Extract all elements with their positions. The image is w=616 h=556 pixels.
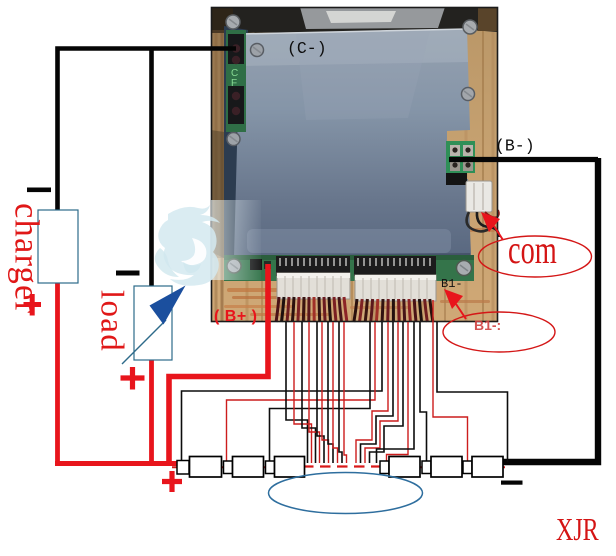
cell 6 — [472, 457, 503, 478]
balance wire L8 stub — [339, 322, 342, 463]
balance wire R2 stub — [361, 322, 394, 463]
charger minus — [27, 188, 51, 193]
wire positive bus bottom — [55, 461, 184, 466]
load minus — [116, 271, 140, 276]
balance wire to T7 — [437, 322, 508, 462]
left margin shading — [211, 30, 227, 258]
balance wire R6 stub — [377, 322, 415, 463]
load plus — [121, 367, 145, 390]
screws — [226, 15, 477, 276]
balance wire R4 stub — [370, 322, 404, 463]
tab T1 — [224, 461, 233, 474]
cell 3 — [275, 457, 305, 478]
balance wire to T4 — [387, 322, 409, 461]
balance wire L7 stub — [333, 322, 338, 463]
svg-text:B1-:: B1-: — [474, 317, 501, 333]
wood streaks bottom — [224, 228, 495, 316]
cell 2 — [233, 457, 264, 478]
com ellipse — [479, 236, 592, 277]
B1- ellipse — [443, 312, 555, 352]
wire charger-negative to C- — [58, 49, 237, 211]
cell 1 — [190, 457, 222, 478]
balance wire L5 stub — [322, 322, 329, 463]
omitted cells blue ellipse — [269, 473, 423, 514]
red dashed omitted cells — [303, 465, 380, 467]
svg-text:com: com — [508, 227, 557, 272]
plate top glare — [300, 7, 445, 29]
pcb dark left strip — [224, 26, 248, 262]
balance wire R3 stub — [365, 322, 398, 463]
cell 5 — [431, 457, 462, 478]
bottom pin headers — [276, 256, 350, 276]
B- connector — [446, 141, 475, 173]
junction links red — [172, 466, 505, 468]
tab T0 — [177, 461, 189, 475]
svg-text:(C-): (C-) — [287, 39, 327, 58]
bottom plus — [162, 471, 182, 492]
svg-text:load: load — [94, 290, 130, 352]
white JST connectors — [277, 273, 350, 299]
load arrow line — [122, 320, 166, 364]
svg-text:charger: charger — [8, 203, 46, 314]
svg-text:F: F — [231, 78, 237, 89]
arrow to com wires — [481, 212, 503, 240]
balance wire to T1 — [227, 322, 376, 461]
bottom-right minus — [501, 481, 523, 485]
balance wire to T2 — [270, 322, 371, 461]
pcb dark top strip — [211, 7, 498, 33]
balance wire L4 stub — [317, 322, 324, 463]
tab T5 — [422, 461, 431, 474]
wire load-positive — [149, 358, 154, 464]
wire charger-positive — [55, 283, 60, 464]
wire load-negative branch — [149, 49, 154, 289]
balance wire to T0 — [182, 322, 383, 461]
charger plus — [24, 294, 42, 316]
photo background wood — [211, 7, 498, 322]
tab T4 — [380, 461, 389, 474]
svg-text:(B-): (B-) — [495, 137, 535, 156]
wire bundle right — [354, 299, 433, 322]
load arrow head — [150, 286, 186, 325]
balance wire L0 stub — [286, 322, 308, 463]
wire B- to pack negative — [449, 157, 598, 162]
balance wire R1 stub — [356, 322, 388, 463]
charger box — [38, 210, 78, 283]
battery string — [172, 457, 505, 514]
WIRES-GROUP — [55, 49, 598, 464]
balance wire L1 stub — [294, 322, 312, 463]
photo frame — [212, 8, 498, 322]
svg-text:B1-: B1- — [441, 277, 463, 291]
green bottom strip — [224, 255, 474, 281]
balance wire L3 stub — [309, 322, 320, 463]
wire B+ thick — [169, 264, 268, 461]
C- terminal strip — [226, 30, 246, 132]
tab T6 — [463, 461, 472, 474]
svg-text:XJR: XJR — [556, 513, 599, 548]
cell 4 — [389, 457, 420, 478]
balance wire L9 stub — [344, 322, 347, 463]
balance wire to T5 — [420, 322, 427, 461]
balance wire L6 stub — [328, 322, 333, 463]
svg-text:( B+ ): ( B+ ) — [214, 308, 257, 325]
aluminum plate — [234, 29, 471, 258]
arrow to B1- pad — [444, 289, 466, 319]
tab T2 — [266, 461, 275, 474]
com port connector — [466, 181, 492, 212]
balance wire L2 stub — [302, 322, 316, 463]
load box — [134, 286, 172, 360]
wire bundle left — [276, 297, 347, 322]
balance wire to T6 — [433, 300, 468, 461]
